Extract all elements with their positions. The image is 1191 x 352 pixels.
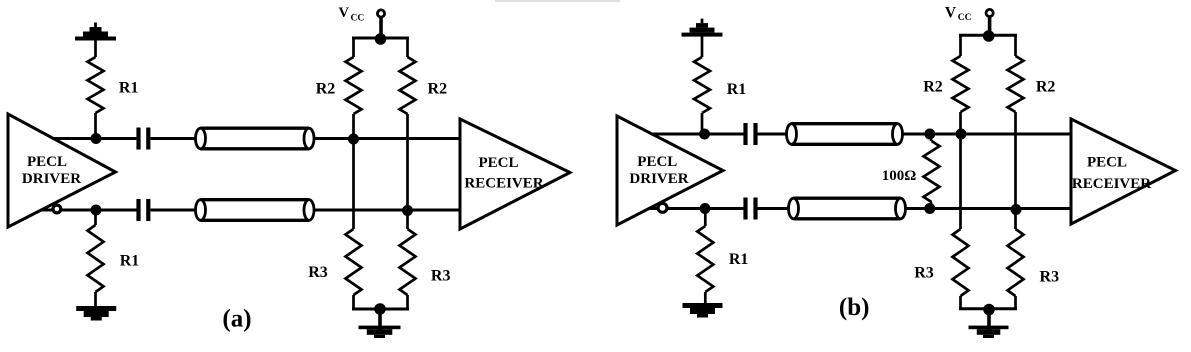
node (b left vertical to top line) xyxy=(956,129,967,140)
svg-text:R1: R1 xyxy=(729,251,749,268)
wire (Vcc rail a) xyxy=(352,37,409,40)
capacitor C1 (a top) xyxy=(136,128,140,150)
wire (b bottom: T-line to receiver) xyxy=(906,207,1071,210)
svg-text:R3: R3 xyxy=(1040,269,1060,286)
svg-text:100Ω: 100Ω xyxy=(882,168,917,184)
svg-text:PECL: PECL xyxy=(478,155,518,171)
node (b bottom driver output junction) xyxy=(700,203,711,214)
svg-text:R2: R2 xyxy=(923,78,943,95)
svg-text:(b): (b) xyxy=(839,294,870,321)
svg-text:R3: R3 xyxy=(431,268,451,285)
node (a bottom driver output junction) xyxy=(91,205,102,216)
ground (a middle bottom) xyxy=(378,309,382,331)
svg-text:R2: R2 xyxy=(428,80,448,97)
resistor R2 (a left) xyxy=(352,37,355,58)
op-amp U4: PECL receiver (b) xyxy=(1071,119,1176,224)
svg-text:R1: R1 xyxy=(727,81,747,98)
resistor R1 (a bottom) xyxy=(94,210,97,225)
node (bottom rail junction b) xyxy=(983,304,995,316)
svg-text:RECEIVER: RECEIVER xyxy=(464,176,543,192)
wire (bottom rail b) xyxy=(959,307,1017,310)
svg-text:RECEIVER: RECEIVER xyxy=(1072,176,1151,192)
ground (b middle bottom) xyxy=(987,310,991,332)
wire (Vcc rail b) xyxy=(959,34,1017,37)
transmission line T2 (a bottom) xyxy=(201,200,310,221)
resistor R1 (b bottom) xyxy=(704,209,707,227)
transmission line T1 (a top) xyxy=(201,128,310,149)
wire (a left vertical: top line to R3) xyxy=(352,139,355,229)
node (Vcc rail junction b) xyxy=(983,30,995,42)
wire (a top: T-line to receiver) xyxy=(315,137,461,140)
wire (a right vertical: bottom line to R3) xyxy=(406,211,409,230)
node (b top driver output junction) xyxy=(699,129,710,140)
node (100Ω bottom) xyxy=(924,203,935,214)
resistor R1 (a top) xyxy=(94,39,97,57)
inversion bubble (driver b) xyxy=(658,203,667,212)
wire (b top: C3 to T-line) xyxy=(758,133,788,136)
wire (b top: T-line to receiver) xyxy=(903,133,1071,136)
resistor R3 (b right) xyxy=(1008,229,1024,296)
svg-text:R2: R2 xyxy=(316,80,336,97)
resistor R3 (a right) xyxy=(400,229,416,295)
op-amp U2: PECL receiver (a) xyxy=(460,119,570,229)
node (Vcc rail junction a) xyxy=(375,33,387,45)
resistor R2 (b left) xyxy=(959,34,962,56)
svg-text:DRIVER: DRIVER xyxy=(629,171,688,187)
svg-text:DRIVER: DRIVER xyxy=(22,171,81,187)
ground (inverted, above R1 top b) xyxy=(682,33,723,37)
svg-text:PECL: PECL xyxy=(637,154,677,170)
wire (b right vertical: bottom line to R3) xyxy=(1014,210,1017,230)
svg-text:R3: R3 xyxy=(308,264,328,281)
transmission line T3 (b top) xyxy=(792,124,898,145)
wire (bottom rail a) xyxy=(352,308,409,311)
ground (below R1 bottom a) xyxy=(76,306,116,311)
svg-text:R1: R1 xyxy=(120,253,140,270)
transmission line T4 (b bottom) xyxy=(794,198,901,219)
resistor 100Ω (b) xyxy=(930,134,933,141)
resistor R3 (a left) xyxy=(346,229,362,295)
svg-text:R2: R2 xyxy=(1036,78,1056,95)
svg-text:V: V xyxy=(339,5,350,21)
resistor R2 (b right) xyxy=(1014,34,1017,56)
svg-text:V: V xyxy=(945,5,957,22)
svg-text:R1: R1 xyxy=(119,80,139,97)
node (a right vertical to bottom line) xyxy=(402,205,413,216)
wire (b bottom: driver to C4) xyxy=(649,207,744,210)
svg-text:CC: CC xyxy=(958,13,972,23)
svg-text:(a): (a) xyxy=(222,306,251,333)
svg-text:R3: R3 xyxy=(914,265,934,282)
node (b right vertical to bottom line) xyxy=(1011,204,1022,215)
resistor R3 (b left) xyxy=(953,229,969,296)
svg-text:PECL: PECL xyxy=(27,154,67,170)
resistor R2 (a right) xyxy=(406,37,409,58)
wire (b left vertical: top line to R3) xyxy=(959,134,962,229)
wire (a bottom: C2 to T-line) xyxy=(151,209,197,212)
capacitor C4 (b bottom) xyxy=(743,198,747,220)
node (a left vertical to top line) xyxy=(348,134,359,145)
ground (below R1 bottom b) xyxy=(683,303,723,308)
svg-text:CC: CC xyxy=(351,14,365,24)
node (bottom rail junction a) xyxy=(374,303,386,315)
ground (inverted, above R1 top a) xyxy=(75,37,116,41)
inversion bubble (driver a) xyxy=(53,205,61,213)
svg-text:PECL: PECL xyxy=(1087,155,1127,171)
wire (a top: driver to C1) xyxy=(53,137,137,140)
wire (b top: driver to C3) xyxy=(651,133,744,136)
wire (a bottom: T-line to receiver) xyxy=(315,209,461,212)
wire (a bottom: driver to C2) xyxy=(41,209,137,212)
op-amp U1: PECL driver (a) xyxy=(8,114,116,227)
capacitor C2 (a bottom) xyxy=(136,199,140,221)
scan artifact (cropped text remnant at top edge) xyxy=(495,0,620,2)
capacitor C3 (b top) xyxy=(743,123,747,145)
op-amp U3: PECL driver (b) xyxy=(617,116,723,225)
node (100Ω top) xyxy=(924,129,935,140)
resistor R1 (b top) xyxy=(701,35,704,57)
wire (b bottom: C4 to T-line) xyxy=(758,207,789,210)
node (a top driver output junction) xyxy=(91,133,102,144)
wire (a top: C1 to T-line) xyxy=(151,137,197,140)
